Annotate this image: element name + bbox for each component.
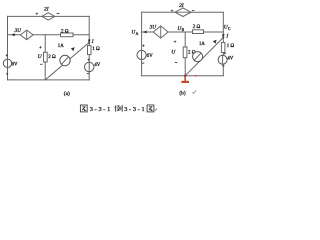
polarity - of U (b) [175,62,177,64]
svg-text:1A: 1A [199,42,205,47]
polarity - of 4V [87,73,89,75]
wire right (a) [88,16,90,80]
svg-text:I: I [91,39,94,45]
svg-text:(b): (b) [179,89,185,96]
wire middle vertical branch (b) [184,32,186,76]
check mark after caption (b) [192,90,196,93]
node dot red on bottom wire (b) [195,75,197,77]
svg-text:3-3-1: 3-3-1 [90,106,112,113]
wire middle horizontal (a) [8,34,90,36]
svg-text:I: I [225,34,228,40]
svg-text:+: + [223,52,226,57]
polarity - of 6V (b) [142,62,144,64]
hanzi TU (figure) first [80,105,87,112]
voltage source 6V (b) [137,50,146,59]
svg-text:+: + [5,54,8,59]
arrow of 1A source (b) [213,40,217,44]
svg-text:1A: 1A [58,44,64,49]
dependent voltage source 2I (b) diamond [175,8,191,17]
resistor 1ohm (b) [221,43,225,53]
wire top (a) [8,15,90,17]
resistor 2ohm horizontal (b) [193,30,204,34]
wire right (b) [222,12,224,75]
svg-text:3-3-1: 3-3-1 [124,106,146,113]
wire middle vertical branch (a) [44,35,46,80]
polarity - of U (a) [40,63,42,65]
svg-text:6V: 6V [12,63,18,68]
current source 1A (a) [60,55,70,65]
dependent current source 3U (b) diamond [153,26,168,38]
svg-text:4V: 4V [94,63,100,68]
wire diagonal 1A branch (b) [185,38,223,76]
wire diagonal 1A branch (a) [45,43,89,80]
arrow of 3U source pointing left [11,33,15,36]
arrow of 3U source pointing left (b) [143,31,147,34]
resistor 2ohm horizontal (a) [61,33,74,37]
wire middle horizontal (b) [142,31,224,33]
wire left (a) [7,16,9,80]
polarity - of 6V [6,73,8,75]
current arrow I (b) [222,34,225,38]
polarity - of 4V (b) [222,65,224,67]
node joint of diagonal (a) [88,42,90,44]
svg-text:+: + [142,44,145,49]
wire bottom (b) [142,75,224,77]
wire bottom (a) [8,79,90,81]
dependent current source 3U (a) diamond [20,30,33,40]
hanzi LI (example) [115,105,122,112]
node dot at ground junction (b) [184,75,186,77]
small stray mark after caption [155,108,157,110]
svg-text:+: + [39,46,42,51]
resistor 1ohm (a) [88,46,92,55]
svg-text:1 Ω: 1 Ω [92,47,100,52]
svg-text:+: + [171,9,174,14]
arrow of 1A source [71,47,75,51]
node joint of diagonal (b) [222,37,224,39]
current source 1A (b) [193,52,203,62]
current arrow I (a) [88,40,91,44]
svg-text:2 Ω: 2 Ω [193,25,201,30]
svg-text:4V: 4V [227,56,233,61]
hanzi TU (figure) second [147,105,154,112]
voltage source 4V (a) [85,62,94,71]
svg-text:+: + [36,13,39,18]
svg-text:+: + [87,58,90,63]
voltage source 4V (b) [218,55,227,64]
wire left (b) [141,12,143,75]
resistor 2ohm vertical (a) [44,52,48,62]
svg-text:2 Ω: 2 Ω [61,30,69,35]
voltage source 6V (a) [3,59,11,67]
svg-text:+: + [174,41,177,46]
svg-text:(a): (a) [64,90,70,97]
polarity - of 2I (b) [192,10,195,12]
svg-text:1 Ω: 1 Ω [227,44,235,49]
resistor 2ohm vertical (b) [183,47,187,58]
ground (b) red [181,76,189,82]
dependent voltage source 2I (a) diamond [42,13,55,20]
svg-text:2 Ω: 2 Ω [48,55,56,60]
polarity - of 2I [57,13,60,15]
svg-text:A: A [136,32,139,36]
wire top (b) [142,11,224,13]
svg-text:6V: 6V [147,54,153,59]
